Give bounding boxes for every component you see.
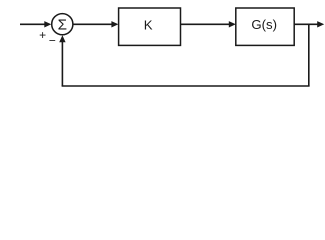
svg-text:K: K	[144, 17, 153, 32]
wire feedback left vertical into summing junction	[59, 35, 65, 86]
svg-text:−: −	[49, 34, 56, 48]
wire feedback right vertical	[308, 24, 310, 86]
block G(s)	[236, 8, 294, 45]
wire output line	[294, 21, 324, 27]
svg-text:+: +	[39, 28, 46, 42]
summing junction	[52, 14, 73, 35]
wire input line	[20, 21, 51, 27]
svg-text:Σ: Σ	[58, 16, 67, 33]
block K	[119, 8, 181, 45]
svg-text:G(s): G(s)	[251, 17, 277, 32]
wire summing junction to K	[73, 21, 119, 27]
wire K to G(s)	[181, 21, 236, 27]
wire feedback bottom horizontal	[62, 85, 310, 87]
